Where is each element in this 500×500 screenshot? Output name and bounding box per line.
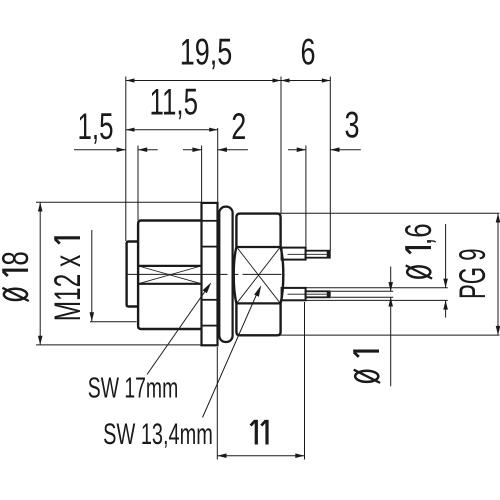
dimension O1,6 right (306, 224, 448, 318)
dimension 6 (281, 80, 330, 82)
svg-text:SW 17mm: SW 17mm (88, 373, 178, 405)
dimension texts (77, 31, 359, 444)
dimension M12x1 (90, 230, 137, 322)
svg-text:8: 8 (0, 251, 36, 265)
dimension PG9 far right (279, 213, 500, 335)
upper pin tip (327, 251, 330, 258)
label O 1,6 rotated (397, 223, 439, 278)
dimension 2 (183, 149, 248, 151)
dimension 11,5 (126, 129, 218, 131)
label M12 x 1 rotated (47, 238, 88, 322)
upper pin shaft (306, 251, 330, 258)
svg-text:M12 x: M12 x (47, 255, 88, 322)
svg-text:3: 3 (344, 104, 359, 145)
label O 1 rotated (353, 351, 380, 383)
lower pin tip (327, 291, 330, 297)
dimension 11 bottom (217, 302, 304, 460)
sealing washer (219, 207, 232, 342)
svg-text:,6: ,6 (397, 223, 439, 245)
dimension 3 (288, 149, 361, 151)
svg-text:19,5: 19,5 (180, 31, 233, 72)
extension lines top (126, 77, 330, 251)
dimension O1 (331, 267, 393, 387)
svg-text:6: 6 (300, 31, 315, 72)
threaded barrel M12 (138, 221, 201, 330)
hex nut facet lines (202, 221, 218, 326)
connector front step (127, 242, 138, 307)
dimension O18 left (36, 202, 201, 345)
dimension 1,5 (74, 149, 158, 151)
text 11 (256, 420, 267, 445)
svg-text:PG 9: PG 9 (452, 248, 493, 299)
upper pin centerline (288, 253, 327, 255)
hex nut SW17 column (202, 203, 218, 345)
centerline (126, 273, 282, 275)
svg-text:11,5: 11,5 (150, 81, 198, 123)
thread band lines (138, 265, 201, 267)
leader SW17 (147, 287, 208, 375)
upper pin base (282, 248, 306, 260)
svg-text:1,5: 1,5 (77, 105, 113, 147)
rear hex cross X (237, 247, 280, 303)
svg-text:2: 2 (231, 106, 246, 147)
lower pin base (282, 288, 306, 300)
rear hex facet lines (236, 246, 280, 248)
rear hex PG9 body (234, 214, 284, 336)
thread cross X (139, 266, 202, 284)
label O 18 rotated (0, 251, 36, 301)
svg-text:SW 13,4mm: SW 13,4mm (103, 418, 213, 451)
label PG 9 rotated (452, 248, 493, 299)
dimension 19,5 (126, 80, 281, 82)
lower pin centerline (288, 293, 327, 295)
lower pin shaft (306, 291, 330, 297)
leader SW13,4 (203, 290, 259, 418)
